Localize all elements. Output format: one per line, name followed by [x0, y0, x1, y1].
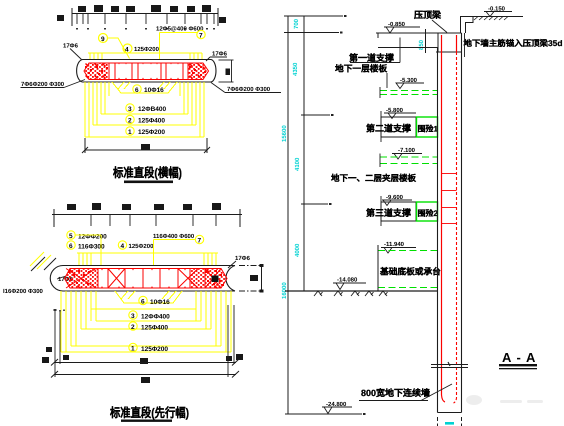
yellow leaders to capsule lower	[76, 235, 219, 266]
svg-text:4100: 4100	[294, 157, 301, 171]
ground hatches bottom	[314, 291, 388, 296]
svg-text:围殓2: 围殓2	[418, 209, 439, 218]
title underline	[124, 181, 173, 184]
label 压顶梁	[414, 10, 447, 33]
cap beam bottom	[436, 51, 462, 53]
foundation left edge	[377, 245, 379, 291]
svg-text:6: 6	[135, 87, 139, 94]
svg-text:4350: 4350	[292, 62, 299, 76]
tick end dots	[329, 15, 366, 415]
slab B1 green dashed	[380, 91, 437, 95]
callout 4 + label	[123, 44, 160, 54]
svg-text:125Φ400: 125Φ400	[138, 118, 165, 125]
callout 1 + 125@200	[126, 127, 166, 136]
svg-text:2: 2	[128, 118, 132, 125]
right note 7@6@200 @300	[211, 83, 281, 94]
natural ground line right	[473, 16, 523, 18]
top dimension line lower	[52, 209, 242, 227]
left note 7@6@200 @300	[21, 80, 86, 89]
svg-text:10Φ16: 10Φ16	[144, 87, 164, 94]
right end concave arc	[226, 266, 235, 292]
segment dimension line	[303, 16, 305, 291]
svg-text:17Φ6: 17Φ6	[63, 43, 79, 50]
svg-text:125Φ200: 125Φ200	[138, 129, 165, 136]
red reinforcement outline	[84, 63, 209, 80]
wall centerline marks below	[438, 417, 462, 426]
svg-text:125Φ200: 125Φ200	[129, 243, 155, 250]
svg-text:-14.080: -14.080	[337, 277, 358, 284]
svg-text:4000: 4000	[294, 243, 301, 257]
right mini dimension	[219, 60, 234, 82]
svg-text:2: 2	[131, 324, 135, 331]
break marks top-left of capsule	[30, 252, 56, 271]
callout 4 lower + 125@200	[118, 241, 154, 250]
callout 7	[160, 30, 206, 59]
17@6 label right	[206, 51, 228, 62]
svg-text:7Φ6Φ200 Φ300: 7Φ6Φ200 Φ300	[21, 81, 65, 88]
svg-text:16000: 16000	[281, 282, 288, 299]
callout 6 + 10@16	[133, 85, 164, 94]
excavation ground line	[285, 290, 438, 292]
section label double underline	[499, 364, 537, 366]
svg-text:17Φ6: 17Φ6	[235, 255, 251, 262]
svg-text:-11.940: -11.940	[384, 241, 405, 248]
dim tick crossing beam	[425, 29, 427, 53]
slab mid end tick	[379, 154, 381, 168]
svg-text:10Φ16: 10Φ16	[150, 299, 170, 306]
lower dimension line 1	[51, 359, 239, 366]
yellow trapezoid splay	[112, 82, 177, 93]
svg-text:A - A: A - A	[502, 350, 536, 365]
small black squares lower	[42, 347, 243, 364]
foundation slab bottom green dashed	[378, 287, 437, 289]
note 116@400 @600 + callout 7	[153, 233, 204, 245]
wall rebar dashed red	[456, 35, 458, 52]
svg-text:7: 7	[198, 238, 202, 245]
yellow verticals below capsule lower	[61, 291, 231, 352]
svg-text:17Φ6: 17Φ6	[212, 51, 228, 58]
svg-text:标准直段(先行幅): 标准直段(先行幅)	[109, 406, 189, 420]
elevation -11.940	[381, 241, 416, 253]
top dimension line	[72, 8, 218, 26]
elevation -0.150	[484, 6, 512, 17]
svg-text:116Φ400 Φ600: 116Φ400 Φ600	[153, 233, 195, 240]
lower dimension line 2	[51, 371, 239, 378]
cap beam top line	[376, 32, 462, 34]
svg-text:700: 700	[293, 18, 300, 29]
faint watermark	[466, 395, 543, 405]
elevation -24.800	[322, 401, 352, 414]
svg-text:7: 7	[199, 33, 203, 40]
strut 3 extension tick	[380, 196, 382, 226]
capsule outline	[77, 60, 216, 83]
elevation -9.600	[382, 194, 412, 206]
capsule outline lower	[50, 266, 235, 292]
svg-text:第三道支撑: 第三道支撑	[366, 208, 411, 218]
svg-text:3: 3	[131, 313, 135, 320]
cap beam left edge	[437, 33, 439, 52]
17@6 label left	[63, 43, 82, 60]
svg-text:-7.100: -7.100	[398, 147, 416, 154]
yellow cage above capsule	[88, 53, 202, 60]
tick level 0.000	[284, 15, 343, 17]
svg-text:压顶梁: 压顶梁	[414, 10, 442, 20]
diaphragm wall outline	[438, 33, 462, 413]
label 800宽地下连续墙	[359, 384, 452, 401]
svg-text:3: 3	[128, 106, 132, 113]
red rebar speckle right zone	[188, 64, 208, 80]
slab mid green dashed	[380, 157, 437, 164]
red edge ticks lower	[101, 269, 186, 289]
svg-text:125Φ400: 125Φ400	[141, 325, 168, 332]
callout 1 lower	[129, 343, 169, 353]
yellow trapezoid splay lower	[115, 291, 182, 303]
yellow nested box lines	[101, 113, 188, 115]
bottom dimension line	[82, 138, 210, 153]
red rebar speckle left zone	[85, 64, 109, 80]
svg-text:6: 6	[69, 243, 73, 250]
label 第一道支撑	[349, 38, 400, 64]
svg-text:12ΦB400: 12ΦB400	[138, 106, 166, 113]
tick strut3 level	[301, 203, 328, 205]
top dimension text blobs	[57, 5, 226, 23]
callout 9	[99, 34, 130, 59]
svg-text:地下墙主筋锚入压顶梁35d: 地下墙主筋锚入压顶梁35d	[464, 38, 563, 48]
yellow cage above capsule lower	[77, 252, 218, 254]
svg-text:4: 4	[121, 243, 125, 250]
svg-text:标准直段(横幅): 标准直段(横幅)	[112, 166, 182, 180]
callout 2 + 125@400	[126, 115, 166, 124]
tick foot dots	[76, 28, 215, 30]
svg-text:800宽地下连续墙: 800宽地下连续墙	[361, 388, 430, 398]
wall rebar rungs	[442, 174, 457, 224]
ground hatches right	[474, 17, 508, 21]
svg-text:9: 9	[101, 36, 105, 43]
strut 3 box	[381, 202, 416, 221]
yellow verticals below capsule left cluster	[85, 82, 204, 137]
strut 2 box	[381, 117, 416, 137]
svg-text:4: 4	[125, 47, 129, 54]
note bracket line	[464, 33, 466, 57]
17@6 label lower-left	[57, 275, 76, 284]
yellow nested box lines lower	[96, 320, 201, 322]
callout 3 lower	[129, 311, 170, 321]
svg-text:125Φ200: 125Φ200	[134, 46, 160, 53]
red speckle left zone lower	[65, 269, 99, 289]
ground line left of wall	[378, 47, 438, 49]
foundation slab top green dashed	[378, 250, 437, 252]
callout 6 + 10@16 lower	[139, 296, 170, 306]
svg-text:地下一、二层夹层楼板: 地下一、二层夹层楼板	[331, 173, 417, 183]
yellow verticals below capsule right cluster	[203, 82, 205, 137]
svg-text:7Φ6Φ200 Φ300: 7Φ6Φ200 Φ300	[227, 86, 271, 93]
lower dim extension verticals	[54, 305, 235, 377]
dimension ticks lower	[91, 214, 216, 226]
red X braces	[66, 269, 96, 289]
top dimension text blobs lower	[67, 203, 221, 210]
dimension ticks	[77, 13, 214, 24]
callout 3 + 12@8@400	[126, 104, 167, 113]
callout 2 lower	[129, 322, 169, 332]
svg-text:15600: 15600	[281, 125, 288, 142]
elevation -5.800	[384, 107, 416, 119]
red speckle right zone lower	[190, 269, 227, 289]
svg-text:6: 6	[141, 299, 145, 306]
label 地下一层楼板	[335, 64, 387, 89]
tick bottom level	[285, 413, 362, 415]
title underline lower	[121, 420, 172, 422]
waler 1 green box	[417, 117, 438, 137]
construction joint	[431, 362, 468, 368]
red joint verticals	[108, 63, 110, 80]
wall rebar solid red	[442, 35, 446, 402]
svg-text:1: 1	[131, 346, 135, 353]
tick ground level	[284, 32, 339, 34]
top right step profile	[461, 17, 524, 34]
tick strut2 level	[301, 114, 330, 116]
red reinforcement outline lower	[65, 269, 228, 289]
callout 5 + 12@200	[67, 231, 107, 241]
waler 2 green box	[417, 202, 438, 221]
svg-text:12Φ5@400 Φ600: 12Φ5@400 Φ600	[156, 26, 204, 33]
svg-text:850: 850	[418, 39, 425, 50]
elevation -7.100	[392, 147, 422, 159]
svg-text:第一道支撑: 第一道支撑	[349, 53, 394, 63]
adjacent panel chain lines	[239, 266, 262, 292]
slab B1 end tick	[379, 87, 381, 98]
svg-text:125Φ200: 125Φ200	[141, 346, 168, 353]
svg-text:12ΦΦ400: 12ΦΦ400	[141, 314, 170, 321]
17@6 label lower-right	[228, 255, 251, 268]
red edge tick marks middle	[118, 63, 179, 80]
cyan mark below wall	[445, 422, 454, 425]
cyan dimension texts	[281, 18, 425, 299]
svg-text:第二道支撑: 第二道支撑	[366, 124, 411, 134]
strut 2 extension tick	[380, 111, 382, 142]
elevation -0.850	[384, 21, 420, 33]
elevation -14.080	[333, 277, 366, 290]
overall dimension line left	[284, 16, 362, 414]
elevation -5.300	[396, 77, 424, 89]
svg-text:I16Φ200 Φ300: I16Φ200 Φ300	[3, 288, 44, 295]
svg-text:围殓1: 围殓1	[418, 125, 439, 134]
svg-text:5: 5	[69, 233, 73, 240]
callout 6 + 116@300	[67, 241, 105, 251]
svg-text:基础底板或承台: 基础底板或承台	[379, 267, 441, 277]
svg-text:地下一层楼板: 地下一层楼板	[335, 64, 387, 74]
svg-text:1: 1	[128, 129, 132, 136]
